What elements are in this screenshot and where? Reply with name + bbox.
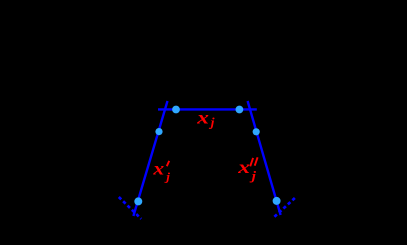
svg-text:x: x xyxy=(237,157,250,178)
label x''_j xyxy=(237,157,258,184)
wire right leg x''_j xyxy=(248,101,281,215)
wire top segment x_j xyxy=(158,108,257,110)
node F bottom-right dot xyxy=(273,197,281,205)
svg-text:x: x xyxy=(152,159,164,179)
node E bottom-left dot xyxy=(134,197,142,205)
wire dashed bottom-left xyxy=(119,197,141,219)
wire left leg x'_j xyxy=(133,101,167,216)
wire dashed bottom-right xyxy=(274,197,295,216)
node B top-right dot xyxy=(236,106,244,114)
node C left-leg dot xyxy=(155,128,162,135)
label x'_j xyxy=(152,159,170,183)
node D right-leg dot xyxy=(253,128,260,135)
svg-text:x: x xyxy=(196,107,209,128)
node A top-left dot xyxy=(172,106,180,114)
label x_j xyxy=(196,107,215,130)
